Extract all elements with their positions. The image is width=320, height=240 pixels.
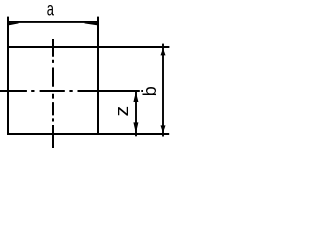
horizontal centerline (dash-dot, also extension line for dimension z)	[0, 90, 143, 92]
svg-text:a: a	[47, 0, 55, 20]
arrowhead bottom of dimension b	[161, 125, 166, 132]
plate right edge (also extension line for dimension a)	[97, 17, 99, 135]
plate top edge (also extension line for dimension b)	[7, 46, 169, 48]
arrowhead top of dimension z	[133, 92, 138, 102]
arrowhead right of dimension a	[85, 23, 98, 26]
arrowhead left of dimension a	[9, 23, 19, 26]
vertical centerline (dash-dot)	[52, 39, 54, 148]
dimension line a	[9, 21, 97, 23]
dimension line z	[135, 92, 137, 137]
plate left edge (also extension line for dimension a)	[7, 17, 9, 135]
arrowhead bottom of dimension z	[133, 122, 138, 133]
dimension line b	[162, 44, 164, 137]
svg-text:z: z	[112, 106, 132, 117]
svg-text:b: b	[140, 86, 160, 96]
arrowhead top of dimension b	[161, 48, 166, 55]
plate bottom edge (also extension line for dimensions b and z)	[7, 133, 169, 135]
